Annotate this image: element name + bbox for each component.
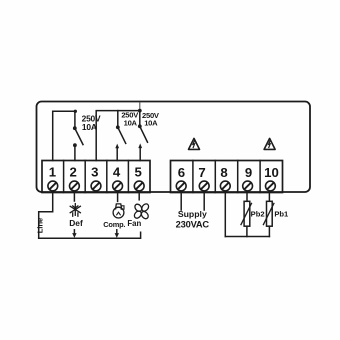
terminal 10 screw (266, 181, 276, 191)
svg-text:Supply: Supply (178, 209, 207, 219)
svg-text:Comp.: Comp. (103, 220, 125, 229)
warning symbol over terminals 6-7 (189, 138, 200, 149)
svg-text:10A: 10A (124, 118, 138, 127)
compressor icon (113, 204, 124, 218)
terminal 3 screw (91, 181, 101, 191)
terminal 6 screw (176, 181, 186, 191)
terminal 4 screw (113, 181, 123, 191)
junction dot bus2 right end (138, 109, 142, 113)
wire terminal5 to fan icon (138, 193, 140, 200)
relay contact K3 over terminal 5 (138, 111, 148, 149)
relay contact K1 over terminal 2 (73, 111, 83, 147)
stub bus2 to box top (139, 103, 141, 111)
probe bottom bus (225, 236, 269, 238)
wire terminal3 up and bus to relays K2 K3 (96, 111, 140, 161)
terminal 7 screw (199, 181, 209, 191)
svg-text:10A: 10A (82, 122, 97, 132)
svg-text:4: 4 (113, 165, 121, 180)
wire terminal7 supply (203, 193, 205, 211)
svg-text:6: 6 (178, 165, 185, 180)
wire terminal1 down to line (39, 193, 53, 239)
svg-text:Line: Line (36, 218, 45, 233)
warning symbol over terminal 10 (264, 138, 275, 149)
relay contact K2 over terminal 4 (115, 111, 125, 149)
svg-text:Pb2: Pb2 (251, 209, 265, 218)
wire terminal2 to defrost icon (73, 193, 75, 202)
svg-text:1: 1 (49, 165, 56, 180)
arrow compressor to line bus (115, 230, 119, 238)
bottom line bus (39, 232, 141, 238)
svg-text:Pb1: Pb1 (274, 209, 289, 218)
terminal 2 screw (70, 181, 80, 191)
label Supply 230VAC (176, 209, 210, 230)
svg-text:Fan: Fan (127, 219, 141, 228)
svg-text:10A: 10A (144, 119, 158, 128)
svg-text:7: 7 (198, 165, 205, 180)
wire relay K3 to terminal 5 (139, 147, 141, 160)
svg-text:9: 9 (245, 165, 252, 180)
wire terminal1 up and bus to relay K1 (53, 111, 76, 160)
rating label 250V 10A relay K2 (121, 110, 139, 127)
wire terminal4 to compressor icon (117, 193, 119, 202)
svg-text:10: 10 (264, 165, 279, 180)
svg-text:Def: Def (69, 218, 83, 228)
terminal 5 screw (134, 181, 144, 191)
svg-text:230VAC: 230VAC (176, 220, 210, 230)
wire terminal6 supply (180, 193, 182, 211)
fan icon (133, 203, 150, 220)
terminal 1 screw (48, 181, 58, 191)
wire terminal9 to probe Pb2 (246, 193, 248, 202)
terminal block 1-5 (42, 161, 150, 193)
svg-text:5: 5 (135, 165, 142, 180)
terminal block 6-10 (171, 161, 283, 193)
controller outline box (37, 102, 311, 193)
probe Pb2 (241, 201, 252, 236)
terminal 9 screw (243, 181, 253, 191)
wire relay K1 to terminal 2 (74, 147, 76, 161)
arrow defrost to line bus (72, 230, 76, 238)
junction dot bus1 (74, 110, 77, 113)
defrost snowflake icon (70, 204, 80, 217)
rating label 250V 10A relay K1 (82, 114, 101, 133)
svg-text:3: 3 (91, 165, 98, 180)
svg-text:2: 2 (70, 165, 77, 180)
wire terminal10 to probe Pb1 (268, 193, 270, 202)
svg-text:8: 8 (220, 165, 227, 180)
rating label 250V 10A relay K3 (142, 111, 160, 128)
wire terminal8 probe common (224, 193, 226, 237)
probe Pb1 (263, 201, 274, 236)
wire relay K2 to terminal 4 (116, 148, 118, 161)
terminal 8 screw (220, 181, 230, 191)
